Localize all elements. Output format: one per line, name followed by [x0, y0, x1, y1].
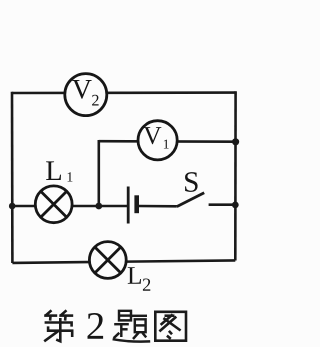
label S	[185, 172, 198, 192]
voltmeter V1	[138, 121, 177, 160]
caption: character 第	[44, 310, 73, 341]
wire V1 branch horizontal	[99, 140, 236, 143]
label L1 subscript	[68, 172, 73, 181]
caption: character 题	[113, 311, 151, 342]
voltmeter V2	[65, 74, 107, 116]
node junction center	[95, 203, 102, 210]
battery	[128, 187, 137, 224]
label V1 letter	[143, 127, 161, 144]
caption: character 图	[155, 312, 186, 341]
node junction right-upper	[232, 138, 239, 145]
lamp L2	[89, 242, 126, 279]
lamp L1	[35, 186, 72, 223]
wire inner vertical	[98, 140, 101, 206]
node junction right-lower	[232, 202, 239, 209]
wire battery to switch	[139, 205, 177, 208]
wire bottom side	[12, 260, 235, 263]
label L2 letter	[128, 267, 141, 284]
label L2 subscript	[143, 278, 150, 290]
label V1 subscript	[164, 140, 169, 149]
label V2 letter	[72, 80, 92, 99]
wire middle branch	[12, 205, 127, 208]
wire right side	[234, 91, 237, 260]
caption digit 2	[88, 313, 104, 339]
label V2 subscript	[92, 95, 98, 106]
wire top side	[12, 91, 236, 94]
switch S	[177, 193, 236, 207]
wire left side	[11, 92, 14, 263]
label L1 letter	[46, 161, 61, 180]
node junction left	[9, 203, 16, 210]
